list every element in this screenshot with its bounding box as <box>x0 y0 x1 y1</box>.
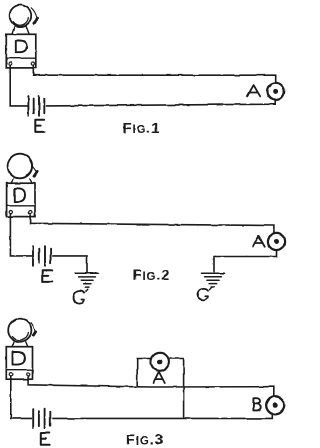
box base line (fig1) <box>6 57 36 59</box>
clapper arm (fig1) <box>31 8 37 18</box>
ground symbol left (fig2) <box>76 273 99 287</box>
label G right (fig2) <box>198 289 208 300</box>
G right tick (fig2) <box>210 287 212 290</box>
battery E (fig2) <box>33 246 51 266</box>
wire: left terminal down to battery (fig1) <box>10 65 27 106</box>
box base line (fig2) <box>7 205 35 207</box>
gong rim arc (fig3) <box>12 332 28 340</box>
wire: right terminal to top rail to post B (fig3) <box>29 376 274 397</box>
gong rim arc (fig2) <box>26 161 32 176</box>
clapper arm (fig3) <box>31 323 35 332</box>
wire: battery right to ground drop (fig2) <box>52 256 87 273</box>
wire: left terminal down to battery (fig2) <box>10 214 32 256</box>
binding post A (fig1) <box>267 83 284 100</box>
wire: battery to post A bottom (fig1) <box>46 100 275 106</box>
bell neck (fig1) <box>12 26 29 34</box>
terminal screw left (fig2) <box>9 211 12 214</box>
bell neck (fig2) <box>11 179 32 183</box>
binding post A (fig2) <box>268 233 285 250</box>
label D (fig3) <box>13 352 25 365</box>
bell gong (fig3) <box>8 319 31 342</box>
bell box (fig2) <box>7 183 35 216</box>
battery E (fig1) <box>28 96 44 116</box>
terminal screw left (fig1) <box>9 62 12 65</box>
label D (fig2) <box>15 188 25 201</box>
wire: bottom rail battery to post B (fig3) <box>52 414 272 419</box>
binding post A (fig3) <box>151 353 169 371</box>
bell neck (fig3) <box>12 342 28 347</box>
label D (fig1) <box>16 41 27 53</box>
wire: right terminal over top rail to post A (fig2) <box>31 214 274 234</box>
bell box (fig3) <box>6 347 32 380</box>
clapper arm (fig2) <box>33 167 37 173</box>
box base line (fig3) <box>6 369 32 371</box>
label E (fig3) <box>41 433 50 445</box>
label A (fig2) <box>253 236 265 247</box>
label E (fig2) <box>42 270 52 282</box>
label E (fig1) <box>35 120 44 132</box>
wire: post A bottom to right ground (fig2) <box>214 250 277 273</box>
terminal screw right (fig3) <box>27 373 30 376</box>
clapper hammer (fig1) <box>34 19 38 24</box>
label A (fig3) <box>153 372 165 383</box>
binding post B (fig3) <box>266 396 284 414</box>
label A (fig1) <box>247 85 260 96</box>
clapper hammer (fig2) <box>34 171 37 176</box>
terminal screw right (fig2) <box>29 211 32 214</box>
clapper hammer (fig3) <box>33 332 35 336</box>
label B (fig3) <box>253 398 260 410</box>
bell gong (fig1) <box>10 5 32 27</box>
wire: left terminal down to battery (fig3) <box>11 376 32 418</box>
gong rim arc (fig1) <box>13 18 28 26</box>
battery E (fig3) <box>33 409 50 428</box>
wire: right terminal over top rail to post A (fig1) <box>33 65 275 83</box>
wire: post A right side down to bottom rail (fig3) <box>169 359 184 419</box>
ground symbol right (fig2) <box>202 273 225 287</box>
bell gong (fig2) <box>8 154 33 179</box>
G left tick (fig2) <box>86 289 88 291</box>
wire: branch up to post A loop left (fig3) <box>137 359 151 387</box>
terminal screw right (fig1) <box>31 62 34 65</box>
bell box (fig1) <box>6 34 36 68</box>
label G left (fig2) <box>74 291 85 304</box>
terminal screw left (fig3) <box>9 373 12 376</box>
